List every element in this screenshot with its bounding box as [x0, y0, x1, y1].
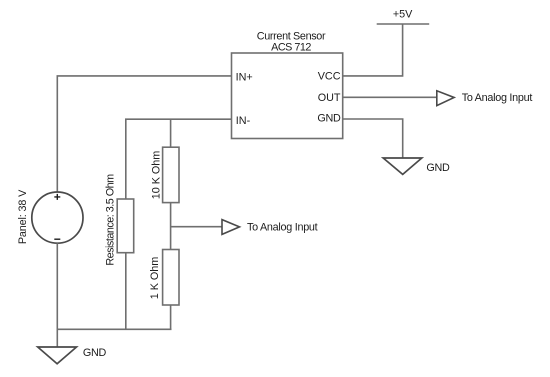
- voltage source B1 Panel 38 V: [32, 192, 83, 243]
- arrow to analog input (divider): [222, 220, 240, 235]
- bottom rail wire: [57, 328, 171, 330]
- plus mark of source: [54, 194, 60, 200]
- wire R2 bottom to R3 top (divider node): [170, 203, 172, 250]
- arrow to analog input (OUT): [437, 91, 454, 106]
- resistor R3 1 K Ohm: [163, 250, 179, 306]
- wire OUT pin to arrow: [343, 96, 437, 98]
- svg-text:IN+: IN+: [236, 71, 253, 83]
- wire IN+ pin to panel top: [57, 76, 231, 192]
- wire R3 bottom to bottom rail: [170, 305, 172, 329]
- svg-text:10 K Ohm: 10 K Ohm: [151, 151, 163, 200]
- wire IN- pin to resistor R1 top: [126, 119, 232, 199]
- svg-text:GND: GND: [83, 347, 107, 359]
- +5V supply symbol bar: [377, 23, 430, 25]
- current sensor U1 ACS 712 body: [232, 53, 343, 139]
- svg-text:To Analog Input: To Analog Input: [247, 222, 318, 234]
- svg-text:To Analog Input: To Analog Input: [462, 92, 533, 104]
- svg-text:Resistance: 3.5 Ohm: Resistance: 3.5 Ohm: [105, 174, 117, 266]
- svg-text:Panel: 38 V: Panel: 38 V: [17, 189, 29, 244]
- svg-text:IN-: IN-: [236, 115, 251, 127]
- wire divider node to arrow: [171, 226, 222, 228]
- svg-text:+5V: +5V: [393, 9, 413, 21]
- svg-text:GND: GND: [317, 112, 341, 124]
- svg-text:GND: GND: [426, 162, 450, 174]
- ground (right): [383, 158, 422, 174]
- wire VCC pin to +5V stem: [343, 24, 403, 76]
- svg-text:OUT: OUT: [318, 92, 341, 104]
- minus mark of source: [54, 238, 60, 240]
- wire R1 bottom to bottom rail: [125, 253, 127, 330]
- wire junction branch to R2 top: [170, 119, 172, 147]
- resistor R2 10 K Ohm: [163, 147, 179, 202]
- wire GND pin to ground: [343, 119, 403, 158]
- svg-text:ACS 712: ACS 712: [271, 42, 311, 54]
- svg-text:VCC: VCC: [318, 70, 341, 82]
- svg-text:1 K Ohm: 1 K Ohm: [149, 257, 161, 300]
- ground (bottom left): [38, 347, 77, 364]
- wire panel bottom to ground: [56, 243, 58, 347]
- resistor R1 Resistance: 3.5 Ohm: [117, 199, 134, 253]
